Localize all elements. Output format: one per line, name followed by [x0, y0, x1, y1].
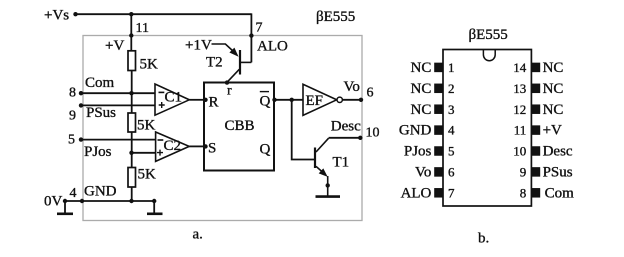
svg-text:b.: b. — [478, 231, 489, 247]
pin 9 stub — [531, 167, 540, 177]
svg-text:+1V: +1V — [185, 38, 212, 54]
svg-text:11: 11 — [514, 123, 527, 138]
svg-text:PSus: PSus — [86, 105, 116, 121]
svg-text:11: 11 — [136, 21, 149, 36]
junction node B (C2 plus tap) — [129, 151, 133, 155]
svg-text:Com: Com — [545, 185, 575, 201]
ground symbol right — [147, 201, 163, 214]
wire node B to C2 plus — [132, 152, 156, 154]
wire tee down to T1 base — [292, 100, 314, 160]
inverter EF — [303, 84, 342, 115]
svg-text:PJos: PJos — [84, 144, 112, 160]
svg-text:Desc: Desc — [543, 144, 573, 160]
transistor T1 — [315, 138, 349, 196]
svg-text:Com: Com — [85, 75, 115, 91]
svg-text:NC: NC — [411, 60, 432, 76]
pin 12 stub — [531, 104, 540, 114]
svg-text:5: 5 — [68, 133, 75, 148]
frame a (internal diagram boundary) — [83, 36, 362, 221]
svg-text:6: 6 — [367, 86, 374, 101]
resistor R3 5K — [128, 167, 156, 188]
node pin 6 — [359, 98, 363, 102]
wire ground rail — [65, 200, 154, 202]
pin 6 stub — [434, 167, 443, 177]
svg-text:R: R — [209, 95, 219, 111]
svg-text:8: 8 — [520, 185, 527, 200]
transistor T2 — [206, 44, 251, 82]
junction Qbar at CBB edge — [272, 98, 276, 102]
pin 2 stub — [434, 84, 443, 94]
svg-text:r: r — [227, 84, 232, 99]
svg-text:0V: 0V — [44, 193, 63, 209]
node r on CBB top — [225, 80, 229, 84]
pin 1 stub — [434, 63, 443, 73]
wire PJos to C2 minus — [81, 139, 156, 141]
svg-text:βE555: βE555 — [469, 27, 508, 43]
svg-text:T2: T2 — [206, 55, 223, 71]
svg-text:9: 9 — [520, 165, 527, 180]
svg-text:8: 8 — [69, 86, 76, 101]
svg-text:GND: GND — [84, 184, 117, 200]
svg-text:5: 5 — [448, 144, 455, 159]
svg-text:1: 1 — [448, 60, 455, 75]
node pin 9 — [79, 103, 83, 107]
svg-text:10: 10 — [366, 126, 380, 141]
wire pin 11 drop — [130, 14, 132, 51]
svg-text:5K: 5K — [137, 118, 156, 134]
pin 8 stub — [531, 188, 540, 198]
svg-text:10: 10 — [513, 144, 526, 159]
node on T1 emitter — [326, 183, 330, 187]
svg-text:6: 6 — [448, 165, 455, 180]
svg-text:14: 14 — [513, 60, 527, 75]
svg-text:5K: 5K — [138, 167, 157, 183]
svg-text:+V: +V — [105, 38, 124, 54]
svg-text:Q: Q — [260, 142, 271, 158]
svg-text:a.: a. — [193, 227, 203, 243]
svg-text:3: 3 — [448, 102, 455, 117]
node pin 5 — [79, 137, 83, 141]
node pin 7 — [249, 33, 253, 37]
node S input — [203, 144, 207, 148]
wire divider segment 1 — [131, 71, 133, 114]
svg-text:2: 2 — [448, 81, 455, 96]
svg-text:NC: NC — [543, 102, 564, 118]
svg-text:PSus: PSus — [543, 165, 573, 181]
svg-text:NC: NC — [411, 81, 432, 97]
svg-text:12: 12 — [513, 102, 526, 117]
svg-text:4: 4 — [70, 186, 77, 201]
svg-text:7: 7 — [448, 185, 455, 200]
junction node A (Com tap) — [129, 91, 133, 95]
wire EF out to pin 6 — [342, 99, 361, 101]
wire Desc to pin 10 — [329, 137, 361, 139]
node +Vs terminal — [73, 12, 77, 16]
pin 14 stub — [531, 63, 540, 73]
wire Com to C1 minus — [81, 92, 155, 94]
pin 4 stub — [434, 125, 443, 135]
wire C1 out to R — [189, 99, 204, 101]
pin 10 stub — [531, 146, 540, 156]
wire divider segment 3 — [131, 187, 133, 201]
pin 11 stub — [531, 125, 540, 135]
resistor R1 5K — [128, 51, 158, 73]
wire Qbar to EF — [274, 99, 303, 101]
svg-text:C1: C1 — [165, 90, 183, 106]
svg-text:+Vs: +Vs — [44, 8, 69, 24]
pin 5 stub — [434, 146, 443, 156]
svg-text:ALO: ALO — [257, 39, 288, 55]
svg-text:Desc: Desc — [331, 118, 361, 134]
junction divider bottom — [129, 199, 133, 203]
wire PSus to C1 plus — [81, 104, 155, 106]
node pin 8 — [79, 91, 83, 95]
svg-text:4: 4 — [448, 123, 455, 138]
svg-text:Q: Q — [260, 94, 271, 110]
node R input — [203, 98, 207, 102]
junction pin 11 — [129, 12, 133, 16]
svg-text:S: S — [208, 141, 216, 157]
svg-text:T1: T1 — [333, 155, 350, 171]
svg-text:5K: 5K — [140, 57, 159, 73]
pin 3 stub — [434, 104, 443, 114]
svg-text:9: 9 — [69, 109, 76, 124]
svg-text:7: 7 — [256, 21, 263, 36]
svg-text:ALO: ALO — [401, 185, 432, 201]
node pin 10 — [358, 136, 362, 140]
flip-flop CBB — [204, 83, 274, 171]
wire C2 out to S — [189, 145, 204, 147]
node pin 11 — [129, 33, 133, 37]
junction ground rail right — [152, 199, 156, 203]
op-amp comparator C2 — [156, 132, 190, 161]
pin 13 stub — [531, 84, 540, 94]
ground symbol T1 — [316, 195, 341, 198]
svg-text:13: 13 — [513, 81, 526, 96]
op-amp comparator C1 — [155, 84, 189, 115]
wire pin 7 ALO drop — [250, 13, 252, 62]
node pin 4 — [80, 199, 84, 203]
svg-text:NC: NC — [543, 60, 564, 76]
svg-text:βE555: βE555 — [316, 9, 355, 25]
junction EF input tee — [290, 98, 294, 102]
svg-text:Vo: Vo — [344, 79, 360, 95]
svg-text:PJos: PJos — [404, 144, 432, 160]
IC package body U1 — [443, 50, 531, 207]
svg-text:EF: EF — [306, 93, 324, 109]
svg-text:C2: C2 — [164, 138, 182, 154]
ground symbol left — [57, 201, 73, 214]
svg-text:Vo: Vo — [415, 165, 431, 181]
svg-text:+V: +V — [543, 123, 562, 139]
resistor R2 5K — [128, 113, 156, 134]
package notch — [483, 50, 495, 61]
node 0V terminal — [63, 199, 67, 203]
wire divider segment 2 — [131, 132, 133, 168]
wire +Vs top rail — [76, 13, 252, 15]
svg-text:CBB: CBB — [225, 118, 255, 134]
svg-text:NC: NC — [543, 81, 564, 97]
pin 7 stub — [434, 188, 443, 198]
svg-text:GND: GND — [399, 123, 432, 139]
svg-text:NC: NC — [411, 102, 432, 118]
